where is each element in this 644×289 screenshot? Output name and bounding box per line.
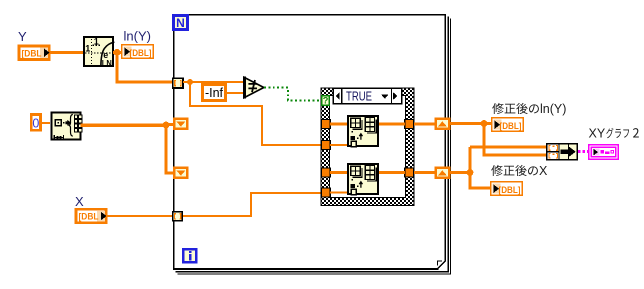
indicator XY graph 2 terminal	[589, 145, 619, 160]
wire T5 to right shift register SR3	[414, 123, 435, 126]
wire X tunnel to case x-element input	[183, 193, 321, 216]
svg-text:X: X	[539, 164, 548, 178]
not-equal comparison function	[243, 77, 264, 99]
wire junction down to loop tunnel	[117, 52, 172, 82]
svg-text:TRUE: TRUE	[346, 89, 372, 103]
wire insert array 2 to T6	[379, 171, 405, 174]
wire initialize array to left shift registers	[81, 125, 175, 174]
case right tunnel T6	[405, 168, 414, 177]
wire insert array 1 to T5	[379, 123, 405, 126]
case selector terminal ?	[322, 96, 329, 106]
indicator corrected X terminal [DBL]	[491, 182, 522, 196]
case selector label TRUE	[333, 88, 401, 103]
wire tunnel to not-equal top input	[183, 81, 244, 83]
case left tunnel T3	[321, 168, 330, 177]
wire SR3 to ln(Y) indicator and bundle	[450, 124, 546, 156]
wire T6 to right shift register SR4	[414, 171, 435, 174]
wire T1 to insert array 1	[330, 123, 347, 126]
svg-text:[DBL: [DBL	[79, 212, 99, 223]
svg-text:XY: XY	[589, 127, 606, 141]
indicator corrected ln(Y) label	[492, 102, 566, 116]
loop count terminal N	[173, 15, 187, 30]
initialize array function icon	[52, 113, 82, 140]
control X label	[75, 194, 84, 209]
svg-text:?: ?	[323, 96, 329, 106]
svg-text:[DBL]: [DBL]	[499, 185, 521, 196]
auto-index tunnel for ln(Y) array	[173, 78, 183, 88]
right shift register SR4	[436, 168, 450, 178]
indicator ln(Y) terminal [DBL]	[122, 45, 153, 59]
bundle function	[547, 144, 578, 160]
wire T4 to insert array 2 element	[330, 192, 347, 194]
wire T2 to insert array 1 element	[330, 144, 347, 146]
wire Y to natural log	[50, 51, 83, 54]
left shift register SR2	[174, 168, 187, 178]
svg-text:Y: Y	[18, 29, 27, 44]
insert into array function U2	[348, 164, 378, 195]
wire T3 to insert array 2	[330, 171, 347, 174]
svg-text:[DBL]: [DBL]	[130, 48, 152, 59]
svg-text:LN: LN	[102, 58, 112, 68]
control Y label	[18, 29, 27, 44]
svg-text:0: 0	[32, 116, 39, 130]
cluster wire bundle to XY graph	[578, 150, 589, 153]
boolean wire not-equal to case selector	[264, 88, 321, 101]
junction node D	[481, 120, 488, 127]
svg-text:ln(Y): ln(Y)	[124, 29, 151, 44]
case left tunnel T1	[321, 119, 330, 128]
case left tunnel T2	[321, 140, 330, 149]
wire -Inf to not-equal bottom input	[227, 92, 244, 94]
case structure border	[321, 88, 414, 206]
constant 0	[31, 114, 40, 130]
junction node B	[163, 122, 170, 129]
svg-text:X: X	[75, 194, 84, 209]
control X terminal [DBL]	[76, 209, 107, 223]
svg-text:[DBL]: [DBL]	[500, 121, 522, 132]
case right tunnel T5	[405, 119, 414, 128]
junction node E	[467, 169, 474, 176]
natural logarithm function icon	[84, 37, 115, 68]
svg-text:[DBL: [DBL	[22, 48, 42, 59]
right shift register SR3	[436, 119, 450, 129]
control Y terminal [DBL]	[19, 46, 50, 60]
wire X to loop tunnel	[107, 215, 172, 217]
indicator corrected ln(Y) terminal [DBL]	[492, 118, 523, 132]
constant -Inf	[203, 85, 226, 101]
iteration terminal i	[183, 249, 196, 262]
svg-text:1: 1	[94, 37, 99, 47]
case left tunnel T4	[321, 188, 330, 197]
junction node A	[114, 49, 121, 56]
svg-text:ln(Y): ln(Y)	[540, 102, 566, 116]
svg-text:-Inf: -Inf	[205, 86, 224, 100]
svg-text:N: N	[176, 16, 185, 30]
junction node C	[187, 79, 193, 85]
for loop frame	[173, 14, 451, 275]
indicator corrected X label	[491, 164, 548, 178]
svg-text:1: 1	[85, 44, 90, 54]
left shift register SR1	[174, 119, 187, 129]
wire natural log output	[113, 51, 122, 54]
wire SR4 to X indicator and bundle	[450, 147, 546, 188]
indicator ln(Y) label	[124, 29, 151, 44]
wire 0 to initialize array	[41, 122, 50, 124]
insert into array function U1	[348, 116, 378, 147]
auto-index tunnel for X array	[173, 212, 183, 221]
indicator XY graph 2 label	[589, 127, 639, 141]
wire junction to case true-element input	[190, 82, 321, 145]
